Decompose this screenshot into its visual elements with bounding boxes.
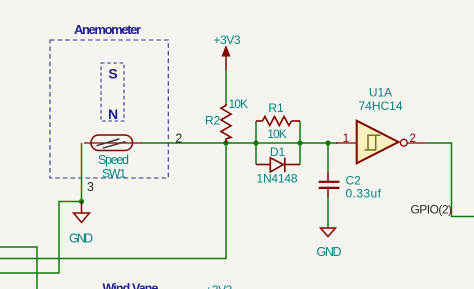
wire C2 bottom to gnd	[327, 197, 329, 228]
wire C2 top	[327, 143, 329, 172]
svg-text:GND: GND	[69, 232, 93, 246]
svg-text:GND: GND	[317, 245, 342, 259]
junction R2/main	[223, 140, 228, 145]
svg-text:GPIO(2): GPIO(2)	[411, 203, 453, 217]
ground under C2	[321, 228, 336, 237]
svg-text:2: 2	[175, 131, 182, 145]
resistor R1	[256, 117, 300, 126]
wire R1 right riser	[299, 121, 301, 165]
hysteresis glyph	[365, 135, 381, 150]
svg-text:10K: 10K	[229, 97, 249, 111]
junction gnd node	[79, 199, 84, 204]
svg-text:Anemometer: Anemometer	[74, 22, 141, 37]
dashed magnet box	[101, 63, 124, 121]
wire output to GPIO	[427, 143, 474, 217]
svg-text:SW1: SW1	[102, 167, 126, 181]
svg-text:Wind Vane: Wind Vane	[103, 282, 159, 289]
svg-text:U1A: U1A	[369, 86, 392, 100]
reed switch SW1	[84, 135, 142, 151]
ground under switch	[74, 202, 90, 223]
svg-text:+3V3: +3V3	[214, 33, 241, 47]
junction R1 left	[253, 140, 258, 145]
svg-text:D1: D1	[270, 145, 286, 159]
power symbol +3V3	[222, 47, 230, 71]
svg-text:R1: R1	[268, 101, 284, 115]
wire gnd branch to left edge	[0, 202, 82, 274]
dashed group box Anemometer	[50, 40, 168, 178]
capacitor C2	[319, 172, 340, 197]
svg-text:N: N	[108, 106, 118, 122]
svg-text:0.33uf: 0.33uf	[346, 187, 382, 201]
wire R1 left riser	[255, 121, 257, 165]
svg-text:S: S	[108, 66, 117, 82]
junction C2	[325, 140, 330, 145]
svg-text:Speed: Speed	[98, 153, 129, 167]
diode D1	[256, 158, 300, 173]
wire main horizontal net	[141, 142, 338, 144]
svg-text:+3V3: +3V3	[205, 283, 232, 289]
junction R1 right	[297, 140, 302, 145]
wire long bottom run	[0, 143, 226, 259]
inverter U1A 74HC14	[336, 121, 427, 164]
svg-text:3: 3	[87, 180, 94, 194]
svg-text:2: 2	[409, 133, 415, 145]
svg-text:R2: R2	[205, 114, 221, 128]
svg-text:C2: C2	[346, 174, 362, 188]
svg-text:10K: 10K	[267, 127, 287, 141]
svg-text:74HC14: 74HC14	[359, 99, 403, 113]
svg-text:1N4148: 1N4148	[257, 172, 298, 186]
svg-text:1: 1	[343, 133, 349, 145]
wire R2 top	[225, 71, 227, 105]
resistor R2	[221, 104, 231, 143]
wire lower-left stub	[0, 247, 37, 289]
wire switch left drop	[81, 143, 83, 202]
